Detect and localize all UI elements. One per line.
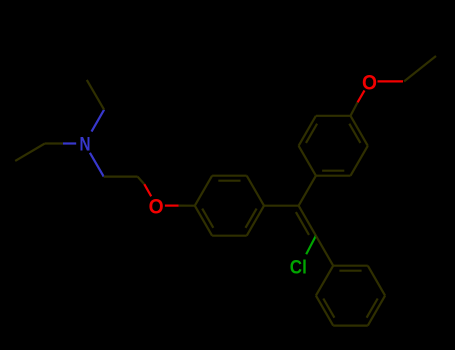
wire ethoxy CH2-CH3 bond: [404, 56, 436, 81]
benzene ring2 edge A2B2: [333, 265, 368, 267]
benzene ring3 edge FA: [316, 175, 351, 177]
benzene ring3 edge DE inner double: [349, 124, 360, 143]
benzene ring2 edge A2B2 inner double: [339, 270, 361, 272]
wire alkene C1=C2 second line: [296, 212, 309, 235]
wire ethyl2 CH2-CH3 bond: [15, 144, 45, 161]
benzene ring1 edge PQ: [195, 176, 212, 206]
svg-text:O: O: [149, 195, 164, 219]
wire ring3-O2 bond red part: [358, 90, 365, 102]
wire C2-ring2 bond: [316, 236, 333, 266]
wire ring1-C1 bond: [264, 205, 299, 207]
benzene ring2 edge C2D2: [368, 296, 385, 326]
wire ring3-O2 bond olive part: [351, 102, 358, 116]
benzene ring3 edge AB: [299, 146, 316, 176]
benzene ring3 edge EF: [351, 146, 368, 176]
benzene ring2 edge B2C2: [368, 266, 385, 296]
wire ethyl2 N-CH2 bond olive part: [45, 142, 63, 144]
benzene ring1 edge TU: [212, 235, 247, 237]
wire C2-Cl bond (green): [306, 236, 316, 255]
svg-text:N: N: [80, 134, 91, 155]
benzene ring3 edge CD: [316, 115, 351, 117]
benzene ring2 edge E2F2: [316, 296, 333, 326]
benzene ring2 edge D2E2: [333, 325, 368, 327]
wire ethyl2 N-CH2 bond blue part: [63, 142, 76, 144]
wire chain CH2-O1 bond red part: [144, 184, 151, 196]
wire O1-ring bond red part: [165, 205, 179, 207]
benzene ring3 edge DE: [351, 116, 368, 146]
benzene ring1 edge UP inner double: [202, 209, 213, 228]
wire ethyl1 CH2-CH3 bond: [87, 80, 104, 110]
benzene ring3 edge BC: [299, 116, 316, 146]
benzene ring1 edge ST inner double: [246, 209, 257, 228]
wire O1-ring bond olive part: [179, 205, 195, 207]
svg-text:O: O: [362, 70, 377, 94]
benzene ring2 edge F2A2: [316, 266, 333, 296]
svg-text:Cl: Cl: [290, 256, 307, 278]
benzene ring1 edge QR: [212, 175, 247, 177]
wire C1-ring3 bond: [299, 176, 316, 206]
wire chain N-CH2 bond (blue): [90, 153, 104, 177]
benzene ring1 edge UP: [195, 206, 212, 236]
benzene ring3 edge FA inner double: [322, 170, 344, 172]
wire O2-CH2 bond (red): [378, 80, 404, 82]
wire chain CH2-CH2 bond: [104, 176, 138, 178]
benzene ring2 edge C2D2 inner double: [367, 299, 378, 318]
benzene ring2 edge E2F2 inner double: [323, 299, 334, 318]
wire alkene C1=C2 main line: [299, 206, 316, 236]
benzene ring1 edge QR inner double: [218, 180, 240, 182]
wire chain CH2-O1 bond olive part: [138, 177, 145, 185]
benzene ring1 edge ST: [247, 206, 264, 236]
benzene ring3 edge BC inner double: [306, 124, 317, 143]
wire ethyl1 N-CH2 bond (blue half): [92, 110, 105, 132]
benzene ring1 edge RS: [247, 176, 264, 206]
